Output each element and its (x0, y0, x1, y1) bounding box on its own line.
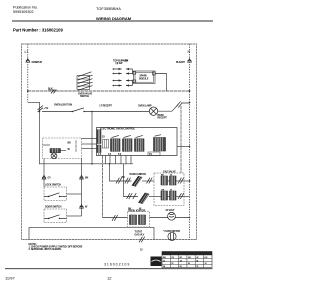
wire bake row feed (110, 164, 132, 181)
wire bracket rows 3-4 (133, 81, 134, 86)
svg-text:GAS VALVE: GAS VALVE (163, 170, 176, 173)
connector plug door right (80, 175, 84, 179)
door switch box 2 (44, 209, 67, 223)
connector chevrons on bus (51, 90, 56, 94)
ignitor bake (132, 176, 142, 186)
connector arrows burner row 4 (113, 84, 133, 86)
schematic border (22, 44, 197, 240)
connector chevrons lamp feed (38, 106, 43, 113)
wire latch to EOC mid (82, 143, 98, 145)
connector plug door left (42, 175, 46, 179)
wire main dashed bus y91 (28, 90, 190, 92)
connector plug L1 (26, 59, 30, 63)
connector plug door right lower (80, 205, 84, 209)
wire latch bus (40, 163, 134, 165)
connector arrows burner row 3 (113, 79, 133, 81)
wire door2 out (67, 215, 82, 217)
wire door sense drop (91, 112, 93, 164)
junction dot N bus (189, 90, 191, 92)
svg-text:BK: BK (122, 176, 126, 179)
svg-text:ELECTRONIC OVEN CONTROL: ELECTRONIC OVEN CONTROL (100, 126, 136, 130)
connector comb EOC bottom (106, 156, 132, 164)
wire thermostat out (150, 217, 190, 219)
switch bank box (77, 76, 90, 90)
spark module U1 (134, 71, 156, 84)
svg-text:BAKE IGNITOR: BAKE IGNITOR (130, 173, 147, 176)
connector arrows burner row 1 (113, 68, 133, 70)
svg-text:* CONV MOTOR: * CONV MOTOR (163, 230, 180, 233)
relay K2 (123, 135, 133, 151)
svg-text:3 1 6 0 0 2 1 0 9: 3 1 6 0 0 2 1 0 9 (104, 262, 129, 266)
title block logo (151, 257, 162, 267)
connector arrows burner row 2 (113, 72, 133, 74)
svg-text:LT RECEPT: LT RECEPT (100, 105, 113, 108)
wire door vertical left (43, 159, 45, 188)
motor latch M1 (51, 153, 57, 159)
svg-text:OVEN LAMP: OVEN LAMP (138, 105, 152, 108)
interface boxlet C (103, 140, 109, 149)
lamp B1 (149, 107, 157, 115)
wire broil row feed (124, 164, 139, 197)
wire latch to EOC lower (82, 148, 98, 150)
wire thermostat drop (102, 156, 104, 218)
svg-text:BK: BK (125, 60, 129, 63)
svg-text:SPARK: SPARK (140, 75, 148, 78)
svg-text:BK: BK (68, 141, 72, 144)
wire module output (155, 74, 166, 92)
connector chevrons bake row (116, 178, 122, 184)
header rule (12, 20, 213, 22)
svg-text:2. SERVICING UNIT IS SHOWN.: 2. SERVICING UNIT IS SHOWN. (29, 248, 62, 251)
wire spark return drop (180, 106, 182, 173)
wire broil ignitor out (149, 196, 161, 198)
ignitor broil (139, 193, 150, 204)
wire N vertical (189, 44, 191, 240)
junction dot L1 (27, 90, 29, 92)
interface column B (97, 145, 101, 153)
wire L1 vertical (27, 44, 29, 102)
wire lamp row (42, 111, 149, 113)
wire bake ignitor out (142, 180, 154, 182)
gas valve dashed box (154, 173, 184, 206)
svg-text:24 VOLT: 24 VOLT (166, 209, 175, 212)
wire into latch box (43, 144, 51, 146)
wire bracket rows 1-2 (133, 69, 134, 74)
switch blades (78, 72, 93, 90)
leader line latch (75, 140, 77, 152)
wire lamp to N (158, 103, 190, 111)
bake valve coil (161, 176, 176, 185)
wire down to latch area (39, 112, 41, 165)
svg-text:TGF355BBHA: TGF355BBHA (96, 6, 121, 11)
svg-text:LM: LM (205, 257, 208, 259)
junction dot latch bus (109, 163, 111, 165)
thermostat dashed box (128, 212, 150, 228)
connector chevrons thermostat (112, 215, 118, 221)
EOC box (97, 128, 178, 156)
coil thermostat a (130, 215, 137, 225)
relay K1 (111, 135, 121, 151)
svg-text:5995309302: 5995309302 (13, 10, 34, 14)
junction dot N lamp (189, 102, 191, 104)
interface column A (97, 130, 101, 144)
wire L1 corner to lamp row (28, 102, 40, 111)
svg-text:GY: GY (48, 176, 52, 179)
motor M2 (168, 232, 176, 240)
connector chevrons lamp N (177, 102, 183, 108)
svg-text:N: N (188, 50, 191, 54)
switch door 1 (48, 196, 49, 197)
svg-text:WIRING DIAGRAM: WIRING DIAGRAM (96, 16, 132, 21)
svg-text:(4) SW: (4) SW (116, 62, 124, 65)
svg-text:DOOR SWITCH: DOOR SWITCH (45, 206, 62, 209)
footer rule (5, 268, 213, 270)
svg-text:MODULE: MODULE (139, 79, 149, 81)
connector block EOC (148, 152, 160, 156)
svg-text:OVEN LIGHT SW: OVEN LIGHT SW (54, 104, 73, 107)
wire EOC to N (177, 146, 190, 148)
svg-text:GAS VLV: GAS VLV (135, 233, 145, 236)
connector chevrons bottom line (139, 237, 145, 243)
wire door1 out (67, 193, 82, 195)
coil thermostat b (139, 215, 146, 225)
wire latch to EOC upper (82, 138, 98, 140)
wire thermostat feed (103, 217, 128, 219)
relay small latch (50, 149, 61, 153)
svg-text:BLK/WT: BLK/WT (176, 61, 185, 64)
door latch box (43, 138, 82, 159)
svg-text:Publication No.: Publication No. (13, 6, 38, 10)
solenoid S1 (168, 212, 176, 220)
wire broil valve to N (176, 196, 190, 198)
svg-text:RECEPT: RECEPT (158, 116, 168, 119)
svg-text:LOCK SWITCH: LOCK SWITCH (45, 184, 61, 187)
switch oven light (72, 111, 73, 112)
door switch box 1 (44, 187, 67, 201)
svg-text:GRN/PUR: GRN/PUR (32, 61, 43, 64)
title block table (162, 252, 212, 268)
connector chevrons broil row (127, 193, 133, 199)
transformer T1 (154, 135, 166, 151)
junction dot lamp feed (39, 111, 41, 113)
svg-text:BK: BK (85, 176, 89, 179)
relay K3 (135, 135, 145, 151)
broil valve coil (161, 191, 176, 200)
wire bottom return (29, 227, 154, 239)
svg-text:Part Number : 316002109: Part Number : 316002109 (13, 28, 63, 33)
connector plug N (188, 59, 192, 63)
svg-text:11/97: 11/97 (5, 276, 15, 281)
svg-text:+ 5V: + 5V (44, 107, 49, 110)
wire door vertical right (81, 159, 83, 217)
svg-text:12: 12 (107, 276, 112, 281)
svg-text:SWITCH: SWITCH (80, 95, 89, 98)
svg-text:BK: BK (128, 207, 132, 210)
wire bake valve to N (176, 180, 190, 182)
switch door 2 (48, 218, 49, 219)
